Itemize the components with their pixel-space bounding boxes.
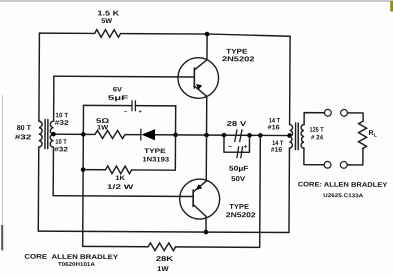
- wire mid branch: [83, 133, 175, 136]
- diode 1N3193: [140, 129, 142, 140]
- svg-text:–: –: [228, 143, 232, 150]
- svg-text:10 T: 10 T: [55, 112, 68, 119]
- svg-text:#32: #32: [55, 120, 70, 127]
- wire battery to bottom: [259, 135, 262, 247]
- wire Q2 base wire: [53, 195, 193, 198]
- scan left edge line: [2, 95, 4, 252]
- svg-text:CORE: ALLEN BRADLEY: CORE: ALLEN BRADLEY: [298, 181, 388, 189]
- svg-text:2N5202: 2N5202: [222, 56, 255, 63]
- svg-text:1.5 K: 1.5 K: [97, 10, 119, 17]
- svg-text:50V: 50V: [231, 176, 245, 183]
- node battery right vertical: [258, 133, 263, 138]
- svg-text:125 T: 125 T: [310, 127, 324, 134]
- wire bottom A collector bus: [38, 231, 289, 232]
- wire Q1 collector: [206, 34, 208, 60]
- wire Q2 emitter rail: [205, 135, 207, 181]
- svg-text:80 T: 80 T: [17, 125, 32, 132]
- wire Q1 emitter rail: [206, 96, 208, 135]
- wire left rail: [38, 33, 41, 121]
- svg-text:2N5202: 2N5202: [226, 212, 256, 219]
- svg-text:28 V: 28 V: [227, 121, 247, 128]
- wire to RL top: [347, 113, 363, 121]
- scan corner artifact: [390, 1, 393, 12]
- resistor 5 ohm 1W: [95, 130, 125, 138]
- capacitor 50uF 50V box: [224, 135, 250, 152]
- svg-text:L: L: [374, 133, 377, 139]
- svg-text:1/2 W: 1/2 W: [107, 184, 135, 191]
- node Q2 collector: [204, 230, 209, 235]
- scan top edge line: [0, 0, 393, 2]
- svg-text:U2625.C133A: U2625.C133A: [323, 193, 363, 199]
- terminal bottom left: [324, 161, 331, 168]
- svg-text:28K: 28K: [156, 256, 174, 263]
- wire center bus right: [176, 134, 290, 137]
- svg-text:#16: #16: [271, 147, 283, 154]
- resistor 1K 1/2W: [106, 166, 132, 174]
- node block right mid: [173, 133, 178, 138]
- transformer T2 secondary 125T: [301, 125, 304, 149]
- transistor Q1 2N5202: [178, 58, 219, 99]
- node block left 1K: [81, 167, 86, 172]
- wire top bus: [39, 32, 94, 34]
- svg-text:10 T: 10 T: [55, 139, 67, 146]
- capacitor 5uF 6V: [132, 101, 135, 111]
- node block left mid: [81, 132, 86, 137]
- resistor RL: [358, 121, 366, 148]
- svg-text:5µF: 5µF: [108, 95, 128, 102]
- transformer T1 secondary 10T+10T: [50, 121, 53, 147]
- node T2 center tap: [287, 133, 292, 138]
- transformer T2 primary lead: [289, 36, 290, 232]
- svg-text:#16: #16: [268, 124, 280, 131]
- terminal bottom right: [340, 161, 347, 168]
- wire 1K branch: [83, 169, 175, 172]
- wire T2 secondary bottom: [304, 148, 324, 165]
- svg-text:TYPE: TYPE: [229, 204, 249, 211]
- transformer T1 core: [45, 120, 48, 149]
- wire Q2 collector: [205, 216, 207, 232]
- wire T2 secondary top: [304, 113, 324, 125]
- wire block left rail: [82, 105, 85, 246]
- terminal top left: [324, 109, 331, 116]
- svg-text:#32: #32: [15, 134, 32, 141]
- svg-text:CORE ALLEN BRADLEY: CORE ALLEN BRADLEY: [24, 254, 119, 262]
- resistor 1.5K 5W: [95, 30, 121, 38]
- wire T1 secondary bottom lead: [52, 147, 54, 195]
- resistor 28K 1W: [148, 243, 176, 251]
- svg-text:T0620H101A: T0620H101A: [58, 262, 95, 268]
- transistor Q2 2N5202: [180, 179, 220, 219]
- svg-text:–: –: [124, 109, 127, 115]
- svg-text:TYPE: TYPE: [226, 49, 248, 56]
- svg-text:1W: 1W: [157, 266, 169, 273]
- wire Q1 base wire: [54, 75, 194, 78]
- wire bottom B bias: [83, 246, 260, 247]
- svg-text:+: +: [244, 144, 248, 151]
- svg-text:1W: 1W: [97, 124, 109, 131]
- transformer T2 primary 14T+14T: [289, 125, 292, 149]
- node T1 center tap: [51, 132, 56, 137]
- svg-text:#32: #32: [54, 146, 68, 153]
- svg-text:50µF: 50µF: [229, 166, 249, 173]
- terminal top right: [341, 109, 348, 116]
- svg-text:TYPE: TYPE: [144, 148, 166, 155]
- transformer T1 primary 80T: [39, 121, 42, 147]
- svg-text:5W: 5W: [101, 18, 112, 25]
- transformer T2 core: [295, 123, 298, 150]
- node emitter junction: [204, 133, 209, 138]
- svg-text:6V: 6V: [113, 87, 123, 94]
- svg-text:1K: 1K: [115, 175, 125, 182]
- wire block right rail: [174, 106, 176, 170]
- wire RL bottom: [347, 148, 363, 164]
- node Q1 collector top: [205, 32, 210, 37]
- wire center tap to block: [53, 133, 83, 135]
- wire cap branch: [83, 104, 175, 107]
- svg-text:1N3193: 1N3193: [142, 156, 169, 163]
- wire T1 secondary top lead: [53, 76, 55, 121]
- svg-text:+: +: [139, 109, 142, 115]
- battery 28V: [222, 133, 227, 138]
- svg-text:# 24: # 24: [311, 134, 323, 141]
